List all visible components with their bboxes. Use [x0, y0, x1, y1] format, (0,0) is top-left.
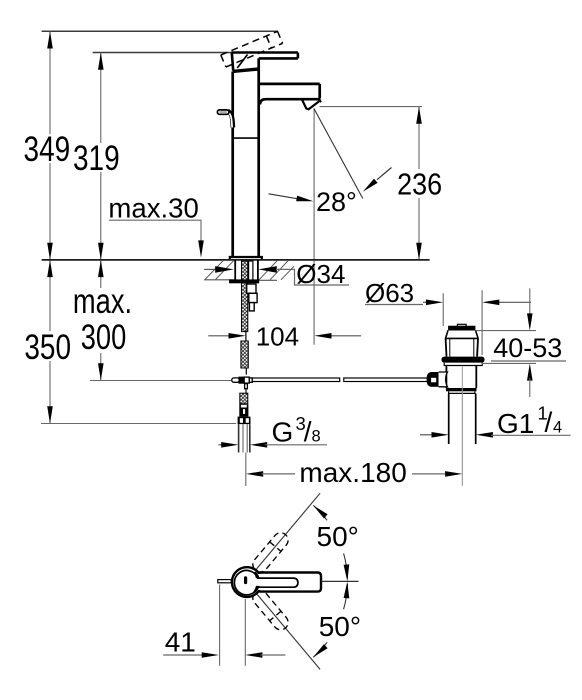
svg-text:4: 4 [553, 418, 562, 436]
spout arm [259, 84, 321, 105]
handle swing ray lower 50deg [257, 594, 321, 670]
svg-text:350: 350 [24, 327, 71, 367]
svg-text:Ø34: Ø34 [296, 259, 345, 289]
G-TOPLINES [42, 31, 278, 52]
counter top line [42, 259, 430, 261]
leader arrow at vertical line [269, 194, 301, 199]
svg-text:28°: 28° [316, 187, 357, 217]
svg-text:G1: G1 [497, 408, 534, 439]
dimension 41 [163, 585, 285, 666]
svg-text:319: 319 [73, 138, 120, 178]
svg-text:41: 41 [165, 627, 196, 658]
leader arrow at stream line [377, 168, 392, 180]
counter hatching right [259, 260, 294, 280]
left tab (rod end) [218, 580, 232, 583]
vertical reference line from aerator [313, 108, 315, 344]
svg-text:/: / [545, 407, 553, 438]
extension line top (349 level) [42, 30, 278, 32]
28-degree stream line [314, 109, 363, 199]
flange ring [442, 357, 485, 363]
junction cusps [253, 572, 259, 579]
angle arc upper [313, 505, 347, 578]
G3/8 connector stack [240, 393, 248, 404]
pop-up rod hook [228, 111, 233, 128]
counter hatching left [205, 260, 234, 279]
svg-text:Ø63: Ø63 [365, 278, 414, 308]
svg-text:40-53: 40-53 [493, 333, 562, 363]
svg-text:8: 8 [312, 428, 321, 446]
dimension G3/8 [219, 413, 328, 448]
escutcheon base [230, 257, 262, 260]
svg-text:50°: 50° [317, 521, 359, 552]
svg-text:50°: 50° [319, 611, 361, 642]
lever handle (solid) [232, 53, 298, 71]
svg-text:max.30: max.30 [108, 193, 198, 224]
handle swing ray upper 50deg [257, 493, 321, 569]
svg-text:max.180: max.180 [299, 457, 406, 488]
dimension G1 1/4 [420, 403, 571, 439]
dimension max.30 (counter thickness) [108, 193, 203, 258]
flexible hose (hatched) [241, 341, 248, 368]
G-DIM28 [269, 107, 443, 345]
drain center line [461, 367, 463, 393]
dashed lever position lower [250, 588, 291, 633]
body column [233, 58, 259, 256]
aerator tip [302, 100, 319, 109]
dimension arrows for hole dia 34 [204, 268, 218, 270]
leader to label dia34 [276, 269, 349, 285]
mounting nut [229, 279, 259, 283]
angle arc lower [313, 584, 347, 657]
pop-up rod tee [232, 377, 253, 394]
extension line bottom of 350 (hose end level) [41, 423, 236, 425]
G-COUNTER [42, 259, 430, 289]
dashed lever position upper [250, 530, 291, 575]
handle bottom (thick) [233, 69, 259, 71]
dimension 104 [208, 321, 361, 351]
svg-text:349: 349 [24, 129, 71, 169]
top cap [457, 324, 466, 326]
center mark [244, 576, 247, 584]
handle joint diagonal [237, 55, 247, 69]
G-DRAIN [365, 278, 571, 486]
check valve fittings [247, 284, 257, 311]
drain pop-up waste body [427, 324, 485, 444]
ball joint connector [431, 372, 439, 387]
handle raised (dashed position) [221, 31, 283, 67]
dimension max.300 [73, 260, 132, 381]
mounting shank walls [234, 260, 236, 280]
dia63 extension lines [442, 293, 444, 326]
dia63 dimension arrows [423, 301, 427, 303]
svg-text:236: 236 [397, 168, 442, 202]
horizontal pop-up rod to drain [252, 378, 430, 382]
threaded pull rod (hatched) [242, 261, 248, 332]
supply center line to max180 [245, 453, 247, 487]
dimension 349 [24, 31, 71, 260]
dimension 236 [320, 107, 443, 260]
extension line bottom of max.300 (pop-up rod level) [90, 380, 232, 382]
hose center line gap [245, 330, 247, 341]
dimension 40-53 [476, 288, 566, 397]
body joint line [233, 137, 259, 139]
G3/8 pipe end [239, 424, 250, 452]
G-FAUCET [217, 31, 321, 260]
dimension 319 [73, 53, 120, 260]
counter underside left [204, 279, 234, 281]
svg-text:300: 300 [81, 318, 127, 357]
svg-text:104: 104 [256, 321, 299, 351]
dimension 350 [24, 260, 71, 424]
svg-text:max.: max. [73, 282, 132, 321]
extension line (319 level) [93, 52, 233, 54]
tailpipe [448, 393, 450, 444]
G-DIMLEFT [24, 31, 237, 423]
horizontal reference line [322, 580, 359, 582]
inner contour: inner circle + slot [234, 570, 298, 594]
handle body + lever (top view, keyhole outline) [232, 567, 321, 597]
lower body [445, 366, 447, 389]
G-UNDERSINK [208, 260, 462, 488]
arc arrowheads [313, 505, 328, 518]
counter underside right [259, 279, 278, 281]
secondary rod [249, 261, 253, 282]
G-BOTTOMVIEW [163, 493, 361, 669]
svg-text:G: G [272, 417, 294, 448]
dimension max.180 [246, 457, 462, 488]
flared upper body [446, 330, 478, 338]
